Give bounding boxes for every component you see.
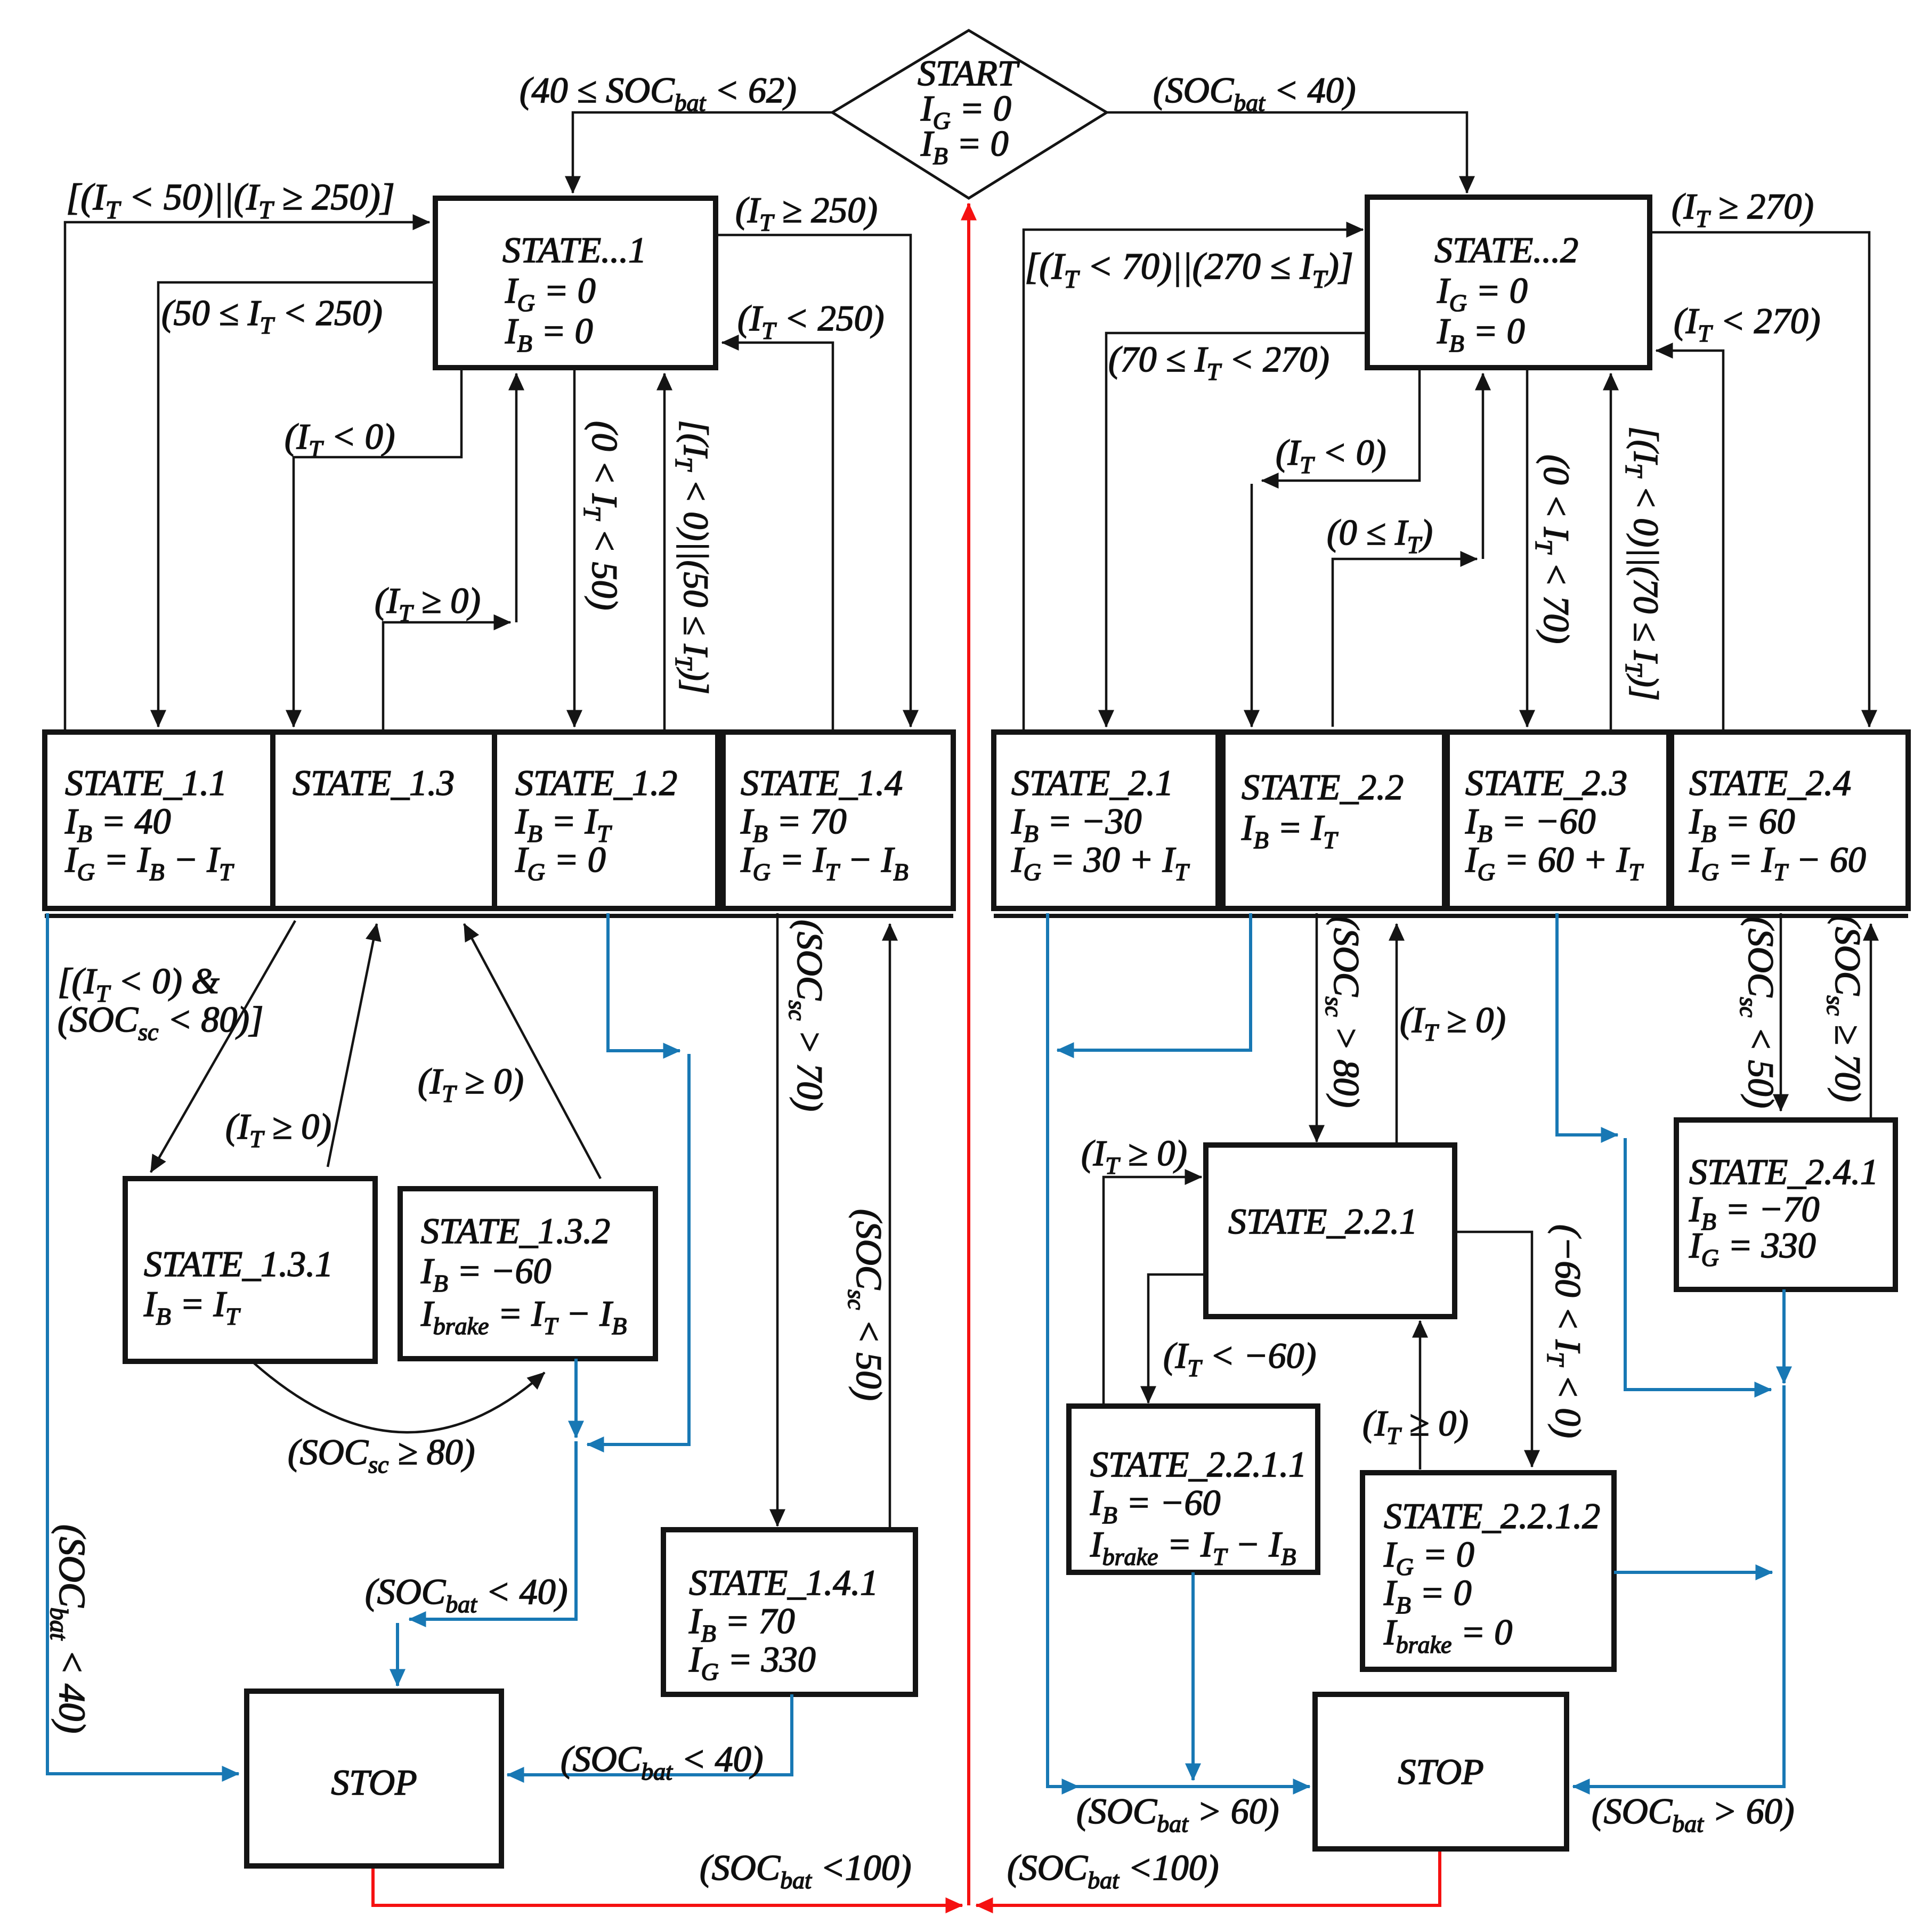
- label (50<=IT<250): [161, 293, 383, 339]
- svg-text:(IT ≥ 0): (IT ≥ 0): [1362, 1403, 1469, 1449]
- label [(IT<0)||(50<=IT)] vertical: [670, 420, 715, 694]
- label (IT>=0) diag left: [225, 1106, 331, 1152]
- state box STATE_1.2 text: [515, 762, 677, 886]
- blue transition 1.2 down part2: [587, 1054, 689, 1444]
- svg-text:START: START: [918, 53, 1020, 93]
- state box STATE_1.3.1: [125, 1179, 375, 1361]
- state box STATE...1 text: [502, 230, 646, 357]
- state box STATE_2.1 text: [1011, 762, 1190, 886]
- state box STOP left: [247, 1691, 501, 1866]
- label [(IT<70)||(270<=IT)]: [1025, 246, 1353, 294]
- state box STATE_1.4 text: [740, 762, 909, 886]
- red return from left STOP: [373, 1866, 962, 1905]
- svg-text:(IT < −60): (IT < −60): [1163, 1335, 1316, 1382]
- red return line vertical: [967, 204, 970, 1905]
- state box STATE...1: [435, 198, 716, 368]
- state box STATE_1.3: [273, 732, 494, 908]
- svg-text:STATE_1.4: STATE_1.4: [741, 762, 903, 803]
- state box STATE_2.2.1 text: [1228, 1201, 1417, 1241]
- svg-text:STATE_1.4.1: STATE_1.4.1: [689, 1562, 878, 1603]
- label (0<IT<70) vertical: [1530, 454, 1577, 644]
- label (40<=SOCbat<62): [520, 70, 797, 116]
- svg-text:STATE...2: STATE...2: [1434, 230, 1578, 270]
- label (SOCbat<100) left: [700, 1847, 911, 1894]
- label (IT<0) left: [285, 416, 395, 462]
- blue transition 1.3.2 to STOP part3: [396, 1623, 399, 1686]
- blue trunk to right STOP: [1573, 1385, 1784, 1787]
- transition 2 to 2.4 (IT>=270): [1650, 232, 1869, 727]
- state box STATE_1.4: [723, 732, 953, 908]
- svg-text:STOP: STOP: [1398, 1751, 1483, 1792]
- label (0<=IT): [1327, 512, 1433, 558]
- svg-text:(IT ≥ 0): (IT ≥ 0): [225, 1106, 331, 1152]
- svg-text:(IT ≥ 270): (IT ≥ 270): [1672, 186, 1814, 232]
- left row underline: [45, 914, 953, 918]
- label (IT>=0) upper left: [375, 580, 481, 627]
- label (SOCbat>60) right: [1592, 1791, 1794, 1837]
- label (IT>=270): [1672, 186, 1814, 232]
- transition 1 to 1.4 (IT>=250): [716, 235, 911, 727]
- svg-text:(IT ≥ 0): (IT ≥ 0): [1081, 1133, 1187, 1179]
- label (SOCsc>=70) vertical: [1822, 915, 1868, 1102]
- label (SOCbat>60) left: [1076, 1791, 1279, 1837]
- label (SOCsc>70) vertical: [784, 920, 830, 1111]
- transition 1.3.2 to 1.3 diagonal (IT>=0): [464, 924, 601, 1179]
- right row underline: [994, 914, 1908, 918]
- label (-60<IT<0) vertical: [1542, 1224, 1588, 1438]
- blue transition 1.1 to STOP (SOCbat<40): [47, 913, 239, 1774]
- transition 2 to 2.1 (70<=IT<270): [1106, 333, 1367, 727]
- label [(IT<0)||(70<=IT)] vertical: [1620, 426, 1665, 701]
- svg-text:STATE_2.2.1.1: STATE_2.2.1.1: [1090, 1444, 1307, 1484]
- state box STATE_2.1: [994, 732, 1218, 908]
- label (IT>=0) diag right: [418, 1061, 524, 1107]
- svg-text:STATE_2.1: STATE_2.1: [1011, 762, 1173, 803]
- label (IT<-60): [1163, 1335, 1316, 1382]
- label [(IT<0)&(SOCsc<80)]: [58, 961, 263, 1045]
- transition 2.2 to 2.2.1 (SOCsc>80): [1316, 913, 1318, 1142]
- label (IT>=0) right top: [1400, 1000, 1506, 1046]
- label (SOCsc>=80): [288, 1432, 475, 1478]
- state box STATE_2.2.1.2: [1362, 1473, 1614, 1669]
- state box STOP right text: [1398, 1751, 1483, 1792]
- label (SOCbat<40) lower: [561, 1739, 763, 1785]
- blue transition 2.1 to STOP (SOCbat>60): [1048, 913, 1310, 1787]
- state box STATE...2: [1367, 197, 1650, 368]
- transition 1.3.1 to 1.3 diagonal (IT>=0): [328, 924, 377, 1167]
- svg-text:STOP: STOP: [331, 1762, 417, 1803]
- svg-text:STATE_1.1: STATE_1.1: [65, 762, 227, 803]
- blue transition 2.2.1.2 right: [1614, 1571, 1772, 1574]
- transition 2.4 to 2 (IT<270): [1656, 351, 1723, 731]
- svg-text:(IT < 270): (IT < 270): [1674, 301, 1820, 347]
- transition 1 to 1.1 (50<=IT<250): [158, 282, 435, 727]
- blue transition 1.3.2 to STOP part2: [409, 1441, 576, 1619]
- start diamond: [832, 30, 1107, 198]
- transition 2.2.1 to 2.2.1.2 (-60<IT<0): [1455, 1232, 1532, 1467]
- label (0<IT<50) vertical: [579, 421, 625, 610]
- svg-text:(−60 < IT < 0): (−60 < IT < 0): [1542, 1224, 1588, 1438]
- blue transition 1.3.2 to STOP part1: [574, 1359, 578, 1438]
- state box STATE_2.2.1.1: [1069, 1406, 1318, 1572]
- label (IT>=0) right mid: [1081, 1133, 1187, 1179]
- transition 2 to 2.3 (0<IT<70): [1526, 368, 1529, 727]
- blue transition 2.4.1 down part1: [1782, 1289, 1786, 1383]
- svg-text:(IT < 0): (IT < 0): [1276, 432, 1386, 478]
- svg-text:STATE_1.3: STATE_1.3: [293, 762, 455, 803]
- transition 1 to 1.3 (IT<0): [294, 368, 461, 727]
- label (SOCsc<50) vertical right: [1735, 916, 1781, 1108]
- state box STATE_1.3.2 text: [420, 1211, 627, 1340]
- svg-text:STATE_2.3: STATE_2.3: [1465, 762, 1627, 803]
- blue transition 2.2 down: [1057, 913, 1251, 1050]
- transition 2.3 to 2 [(IT<0)||(70<=IT)]: [1610, 374, 1612, 731]
- transition 2.2.1 to 2.2 (IT>=0): [1396, 924, 1398, 1145]
- label (IT<250): [737, 298, 884, 344]
- transition 2.4.1 to 2.4 (SOCsc>=70): [1870, 924, 1872, 1120]
- label (SOCbat<100) right: [1007, 1847, 1219, 1894]
- svg-text:STATE_2.2.1.2: STATE_2.2.1.2: [1384, 1496, 1600, 1536]
- label [(IT<50)||(IT>=250)]: [66, 177, 395, 224]
- state box STATE_1.1 text: [64, 762, 234, 886]
- state box STATE_2.2 text: [1241, 767, 1404, 854]
- state box STATE_2.3: [1447, 732, 1669, 908]
- transition START to STATE...2 (SOCbat<40): [1107, 112, 1467, 193]
- transition 1.3.1 to 1.3.2 arc (SOCsc>=80): [253, 1362, 545, 1432]
- state box STATE_2.2: [1223, 732, 1445, 908]
- state box STATE_2.2.1.2 text: [1383, 1496, 1600, 1658]
- transition 2.2 to 2 (0<=IT) horizontal: [1333, 559, 1477, 727]
- transition 2 to 2.2 (IT<0) part2: [1251, 484, 1253, 727]
- svg-text:STATE_2.2.1: STATE_2.2.1: [1228, 1201, 1417, 1241]
- transition 1.3 to 1 (IT>=0) vertical: [515, 374, 518, 622]
- blue transition 2.3 down part2: [1625, 1138, 1771, 1390]
- svg-text:STATE_2.4: STATE_2.4: [1689, 762, 1851, 803]
- state box STOP right: [1315, 1694, 1567, 1849]
- state box STATE_2.3 text: [1465, 762, 1644, 886]
- state box STATE...2 text: [1434, 230, 1578, 357]
- svg-text:STATE_1.3.1: STATE_1.3.1: [144, 1244, 333, 1284]
- state box STATE_2.2.1.1 text: [1090, 1444, 1307, 1570]
- state box STATE_2.4 text: [1689, 762, 1866, 886]
- transition 1.2 to 1 [(IT<0)||(50<=IT)]: [663, 374, 666, 731]
- svg-text:(IT < 250): (IT < 250): [737, 298, 884, 344]
- transition 2.2.1.1 to 2.2.1 (IT>=0): [1104, 1177, 1202, 1406]
- svg-text:(IT ≥ 0): (IT ≥ 0): [1400, 1000, 1506, 1046]
- transition 2.2 to 2 (0<=IT) vertical: [1482, 374, 1485, 559]
- blue mid arrow on STOP feed: [1054, 1785, 1078, 1788]
- transition START to STATE...1 (40<=SOCbat<62): [573, 112, 832, 193]
- state box STATE_1.3 text: [293, 762, 455, 803]
- transition 1.4 to 1 (IT<250): [722, 343, 833, 731]
- label (IT>=0) right low: [1362, 1403, 1469, 1449]
- start diamond text: [918, 53, 1020, 169]
- transition 1.4.1 to 1.4 (SOCsc<50): [889, 924, 891, 1530]
- svg-text:(IT ≥ 250): (IT ≥ 250): [735, 190, 878, 236]
- label (IT<270): [1674, 301, 1820, 347]
- blue transition 1.4.1 to STOP (SOCbat<40): [507, 1694, 792, 1775]
- svg-text:(IT ≥ 0): (IT ≥ 0): [418, 1061, 524, 1107]
- svg-text:(IT < 0): (IT < 0): [285, 416, 395, 462]
- label (SOCsc<50) vertical left: [843, 1209, 889, 1401]
- label (70<=IT<270): [1108, 339, 1329, 385]
- state box STATE_1.4.1: [663, 1530, 915, 1694]
- svg-text:(IT ≥ 0): (IT ≥ 0): [375, 580, 481, 627]
- transition 1.4 to 1.4.1 (SOCsc>70): [776, 913, 779, 1526]
- state box STATE_1.3.2: [400, 1189, 655, 1359]
- svg-text:(40 ≤ SOCbat < 62): (40 ≤ SOCbat < 62): [520, 70, 797, 116]
- transition 2.2.1.2 to 2.2.1 (IT>=0): [1419, 1321, 1422, 1470]
- state box STATE_2.4.1: [1676, 1120, 1895, 1289]
- label (SOCbat<40) mid: [365, 1571, 567, 1618]
- state box STATE_1.2: [494, 732, 718, 908]
- svg-text:STATE...1: STATE...1: [502, 230, 646, 270]
- blue transition 2.3 down part1: [1557, 913, 1618, 1135]
- transition 2.4 to 2.4.1 (SOCsc<50): [1780, 913, 1782, 1111]
- label (SOCbat<40) top: [1153, 70, 1356, 116]
- transition 2.1 to 2 [(IT<70)||(270<=IT)]: [1024, 230, 1363, 731]
- transition 2 to 2.2 (IT<0) part1: [1262, 368, 1420, 481]
- blue transition 2.2.1.1 down: [1191, 1572, 1195, 1780]
- transition 1.1 to 1 [(IT<50)||(IT>=250)]: [65, 222, 429, 731]
- svg-text:STATE_1.3.2: STATE_1.3.2: [421, 1211, 610, 1251]
- state box STATE_2.4.1 text: [1689, 1151, 1878, 1271]
- svg-text:STATE_2.2: STATE_2.2: [1242, 767, 1404, 807]
- blue transition 1.2 down part1: [608, 913, 680, 1051]
- state box STATE_1.1: [45, 732, 273, 908]
- label (IT<0) right: [1276, 432, 1386, 478]
- state box STOP left text: [331, 1762, 417, 1803]
- svg-text:STATE_2.4.1: STATE_2.4.1: [1689, 1151, 1878, 1192]
- svg-text:STATE_1.2: STATE_1.2: [515, 762, 677, 803]
- svg-text:(SOCsc < 80)]: (SOCsc < 80)]: [58, 999, 263, 1045]
- transition 1 to 1.2 (0<IT<50): [573, 368, 576, 727]
- red return from right STOP: [976, 1849, 1440, 1905]
- label (IT>=250): [735, 190, 878, 236]
- transition 1.3 to 1.3.1 diagonal: [151, 921, 295, 1172]
- transition 2.2.1 to 2.2.1.1 (IT<-60): [1148, 1275, 1206, 1403]
- state box STATE_2.4: [1672, 732, 1908, 908]
- state box STATE_1.4.1 text: [688, 1562, 878, 1685]
- transition 1.3 to 1 (IT>=0) horizontal: [383, 622, 510, 731]
- label (SOCsc>80) vertical: [1320, 916, 1367, 1108]
- label (SOCbat<40) vertical: [45, 1524, 92, 1733]
- state box STATE_1.3.1 text: [143, 1244, 333, 1330]
- state box STATE_2.2.1: [1206, 1145, 1455, 1317]
